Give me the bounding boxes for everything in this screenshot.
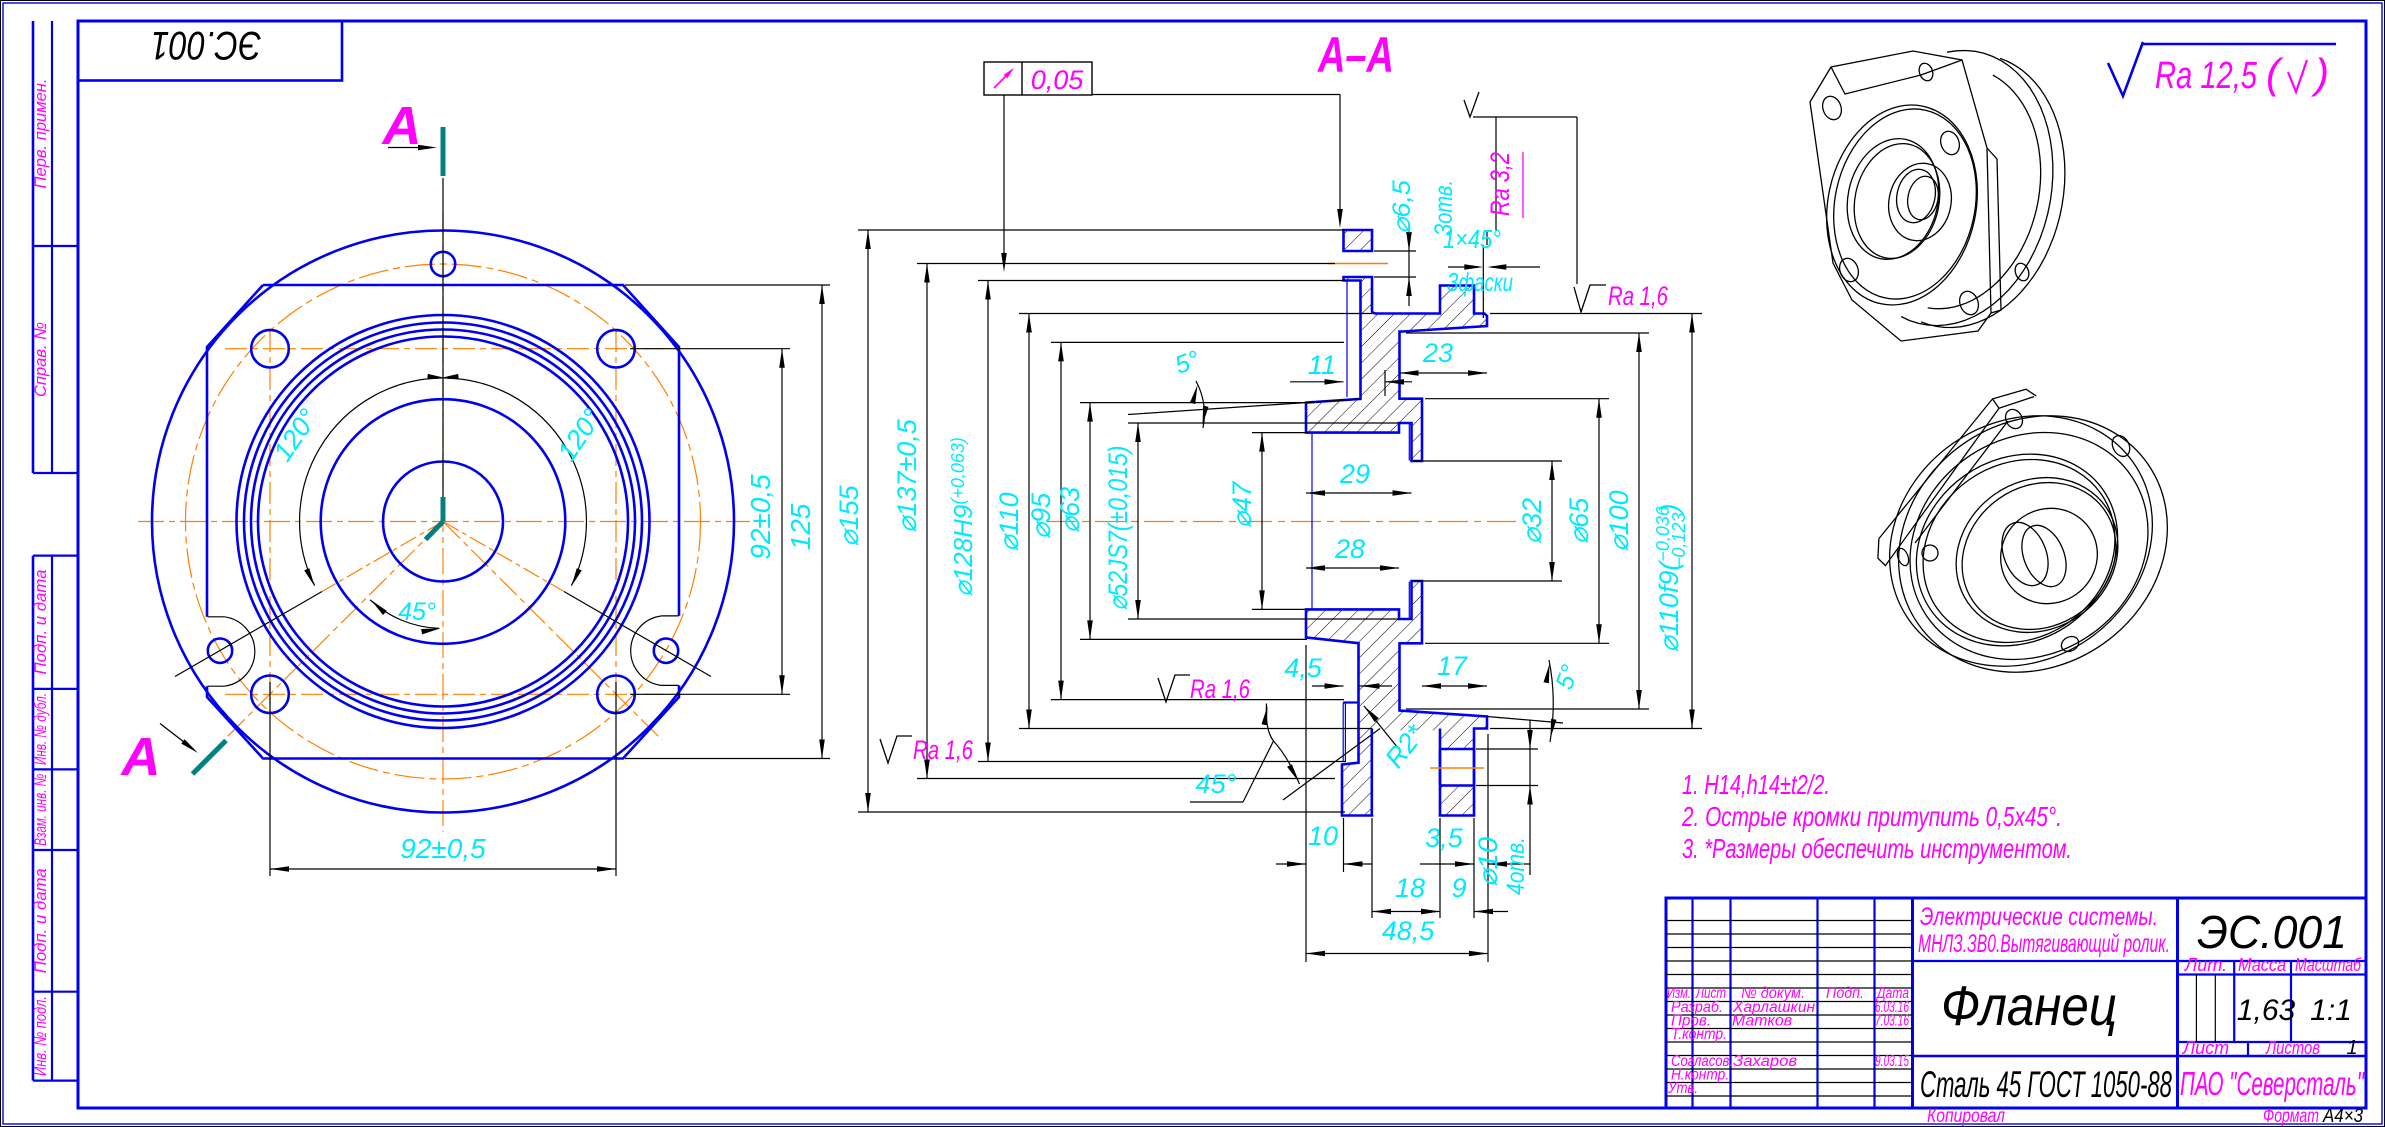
dim 9 [1421,909,1440,914]
svg-text:⌀47: ⌀47 [1227,481,1257,528]
bolt circle [186,264,701,779]
svg-text:Ra 12,5: Ra 12,5 [2155,55,2258,97]
left margin column boxes [32,21,35,473]
iso1 ring holes [1917,61,1935,82]
svg-text:Подп. и дата: Подп. и дата [31,868,50,973]
svg-text:ЭС.001: ЭС.001 [151,23,261,67]
dim 23 [1400,372,1488,374]
dim 4,5 [1312,685,1344,687]
dim 29 [1306,492,1412,494]
svg-text:ЭС.001: ЭС.001 [2197,906,2347,958]
svg-text:Листов: Листов [2265,1038,2320,1058]
section letter A top [388,147,431,149]
svg-text:Инв. № дубл.: Инв. № дубл. [31,693,50,765]
section body upper plate strip above hole [1344,230,1373,251]
svg-text:3,5: 3,5 [1425,823,1464,853]
section body lower half [1306,581,1487,816]
svg-text:⌀95: ⌀95 [1026,492,1056,539]
svg-text:Формат: Формат [2263,1106,2319,1127]
svg-text:0,05: 0,05 [1031,65,1085,95]
iso1 square plate face [1810,51,1991,341]
svg-text:Зфаски: Зфаски [1447,267,1513,297]
angular dim 45deg [370,600,439,629]
svg-text:Масса: Масса [2238,955,2286,975]
svg-text:Лист: Лист [2182,1038,2229,1058]
svg-text:⌀63: ⌀63 [1055,487,1085,533]
svg-text:⌀52JS7(±0,015): ⌀52JS7(±0,015) [1103,446,1133,611]
extension lines right [1414,460,1562,462]
svg-text:Утв.: Утв. [1667,1080,1698,1097]
tolerance frame 0,05 [984,62,1092,95]
svg-text:92±0,5: 92±0,5 [400,833,486,864]
iso2 bore d32 tube [1993,516,2057,593]
hole axes (orange) in section [1328,263,1388,265]
45 deg chamfer note bottom-left [1283,729,1380,801]
svg-text:Взам. инв. №: Взам. инв. № [31,774,50,846]
thin feature lines in section [1346,281,1348,397]
svg-text:А: А [381,96,422,156]
svg-text:45°: 45° [398,598,436,626]
svg-text:Подп.: Подп. [1826,985,1864,1002]
svg-text:⌀110: ⌀110 [994,492,1024,551]
void between plate block and lug [1373,730,1438,818]
Ra 1,6 bore [1158,675,1190,702]
isometric view 1 (top right): d155 disc arcs [1901,51,2053,326]
svg-text:⌀110f9(−0,036−0,123): ⌀110f9(−0,036−0,123) [1653,504,1689,653]
iso2 boss rings [1926,446,2149,664]
svg-text:17: 17 [1437,651,1468,681]
svg-text:1:1: 1:1 [2310,994,2352,1027]
dim 18 [1371,818,1373,918]
svg-text:2. Острые кромки притупить 0,: 2. Острые кромки притупить 0,5х45°. [1681,801,2062,832]
45-deg hole axes [224,522,443,741]
svg-text:Перв. примен.: Перв. примен. [31,79,50,189]
iso2 recess rings [1879,415,2155,685]
dim d10 4otv [1476,748,1538,750]
dim 10 bottom [1305,645,1307,962]
section body upper half [1306,277,1487,461]
svg-text:23: 23 [1422,338,1453,368]
svg-text:Подп. и дата: Подп. и дата [31,570,50,675]
Ra 3,2 leader [1473,116,1577,118]
svg-text:Инв. № подл.: Инв. № подл. [31,996,50,1076]
front view centerlines [442,212,444,832]
boss circles cluster [237,315,650,728]
svg-text:Ra 3,2: Ra 3,2 [1485,152,1515,216]
lug bolt hole slot [1441,750,1472,784]
svg-text:Масштаб: Масштаб [2295,955,2362,975]
front view dims [269,682,271,876]
svg-text:1: 1 [2346,1037,2357,1059]
section line trace (thin) [442,178,444,522]
svg-text:Лит.: Лит. [2184,955,2227,975]
iso1 hub rings d63 [1836,130,1949,268]
svg-text:28: 28 [1334,534,1365,564]
svg-text:Ra 1,6: Ra 1,6 [913,735,974,765]
svg-text:Копировал: Копировал [1927,1106,2005,1127]
svg-text:⌀10: ⌀10 [1473,837,1503,887]
svg-text:⌀155: ⌀155 [834,484,864,546]
section letter A bottom-left [160,724,193,750]
svg-text:Фланец: Фланец [1941,974,2117,1037]
svg-text:Матков: Матков [1732,1013,1792,1030]
svg-text:Ra 1,6: Ra 1,6 [1608,281,1669,311]
svg-text:1. H14,h14±t2/2.: 1. H14,h14±t2/2. [1682,769,1830,800]
svg-text:Ra 1,6: Ra 1,6 [1190,674,1251,704]
recess circle d65 [321,399,566,644]
svg-text:3. *Размеры обеспечить инстру: 3. *Размеры обеспечить инструментом. [1682,833,2072,864]
svg-text:Захаров: Захаров [1733,1053,1797,1070]
svg-text:48,5: 48,5 [1382,916,1436,946]
svg-text:⌀137±0,5: ⌀137±0,5 [892,418,922,533]
svg-text:9.03.15: 9.03.15 [1875,1053,1909,1070]
svg-text:29: 29 [1339,459,1370,489]
dim 17 [1422,685,1487,687]
svg-text:4отв.: 4отв. [1502,837,1530,895]
svg-text:ПАО "Северсталь": ПАО "Северсталь" [2180,1065,2365,1102]
bolt holes d10 [251,330,289,368]
flange outer circle d155 [152,231,734,813]
dim 3,5 [1473,818,1475,918]
extension lines left [858,229,1345,231]
svg-text:1,63: 1,63 [2237,994,2296,1027]
svg-text:А–А: А–А [1316,27,1394,83]
svg-text:МНЛЗ.ЗВ0.Вытягивающий ролик.: МНЛЗ.ЗВ0.Вытягивающий ролик. [1918,930,2170,958]
R2 leader [1364,706,1379,722]
iso2 square plate corner [1879,389,2036,538]
svg-text:Справ. №: Справ. № [31,322,50,397]
small holes d6.5 [431,252,455,276]
svg-text:18: 18 [1395,873,1425,903]
svg-text:92±0,5: 92±0,5 [745,474,776,560]
isometric view 2 (bottom right) [1848,364,2217,724]
section axis centerline [1046,521,1516,523]
svg-text:9: 9 [1451,873,1466,903]
svg-text:4,5: 4,5 [1284,653,1323,683]
Ra 1,6 left [880,736,912,763]
dim 48,5 [1306,953,1488,955]
title block [1666,898,2366,1108]
Ra 12,5 general [2108,42,2143,96]
left dim stack [867,230,869,812]
top-left document number box [78,21,342,81]
5 deg taper top [1128,399,1361,415]
iso2 recess mouth d65 [1982,489,2116,622]
svg-text:1×45°: 1×45° [1443,224,1501,254]
angular dim arcs 120deg [448,378,586,585]
5 deg taper bottom [1487,717,1563,724]
svg-text:125: 125 [785,503,816,550]
chamfer dim 1x45 [1482,245,1484,318]
svg-text:⌀32: ⌀32 [1517,498,1547,544]
spot-face arcs around lower small holes [224,617,254,686]
svg-text:45°: 45° [1196,769,1237,799]
iso1 recess rings d129 [1809,91,1996,319]
svg-text:⌀65: ⌀65 [1564,497,1594,544]
square flange outline with chamfered corners [207,285,679,759]
svg-text:7.03.16: 7.03.16 [1875,1013,1909,1030]
dim 11 [1290,381,1344,383]
svg-text:⌀6,5: ⌀6,5 [1388,180,1416,234]
dim 28 [1306,567,1399,569]
bore circle d32 [383,462,503,582]
svg-text:Т.контр.: Т.контр. [1671,1026,1727,1043]
svg-text:11: 11 [1308,350,1336,380]
section trace thick marks (teal) [441,127,446,176]
dim d6,5 3otv [1374,250,1416,252]
svg-text:10: 10 [1308,821,1338,851]
iso2 holes [2002,406,2026,431]
iso1 plate holes [1819,94,1844,123]
svg-text:А: А [120,727,161,787]
right dim stack [1551,461,1553,581]
svg-text:А4×3: А4×3 [2322,1106,2363,1127]
svg-text:Электрические системы.: Электрические системы. [1920,903,2158,931]
svg-text:Сталь 45 ГОСТ 1050-88: Сталь 45 ГОСТ 1050-88 [1920,1064,2172,1105]
iso1 bore d32 [1892,166,1940,227]
iso1 bore d47 [1882,157,1959,246]
svg-text:⌀100: ⌀100 [1604,490,1634,551]
Ra 1,6 right [1576,117,1578,284]
